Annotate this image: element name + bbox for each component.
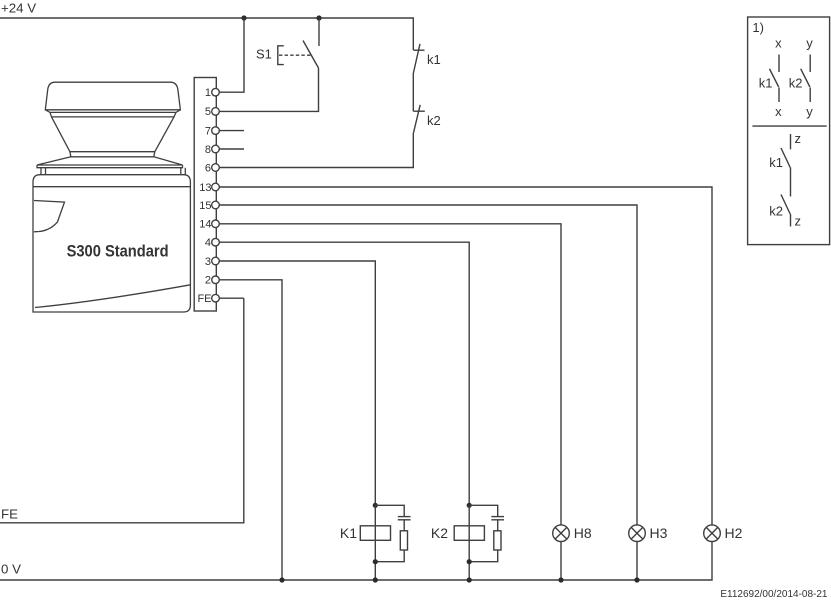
svg-text:H2: H2 <box>725 525 743 541</box>
wire pin15 to H3 <box>219 205 637 525</box>
wire stub pin7 <box>219 130 244 132</box>
+24V rail <box>0 1 413 51</box>
junction dot K2 on 0V <box>467 577 472 582</box>
svg-text:K1: K1 <box>340 525 357 541</box>
pin 7 <box>205 125 211 137</box>
legend contact k1 <box>759 55 779 103</box>
svg-text:x: x <box>775 104 782 119</box>
svg-text:7: 7 <box>205 125 211 137</box>
legend separator <box>752 125 826 127</box>
wire through K1 coil <box>374 505 376 580</box>
resistor R1 <box>400 531 407 550</box>
pin 6 <box>205 162 211 174</box>
wire pin4 to K2 <box>219 242 469 505</box>
svg-text:S300 Standard: S300 Standard <box>67 242 169 260</box>
svg-text:0 V: 0 V <box>1 562 21 577</box>
wire pin5 to S1 <box>219 68 319 111</box>
svg-text:FE: FE <box>197 293 211 305</box>
scanner bottom curve <box>35 285 190 308</box>
scanner optics window <box>34 201 65 232</box>
resistor R2 <box>494 531 501 550</box>
pin 1 <box>205 87 211 99</box>
scanner body <box>33 175 190 312</box>
svg-text:k2: k2 <box>789 76 803 91</box>
wire stub pin8 <box>219 148 244 150</box>
pin 3 <box>205 256 211 268</box>
svg-text:2: 2 <box>205 275 211 287</box>
svg-text:K2: K2 <box>431 525 448 541</box>
svg-text:k2: k2 <box>769 204 783 219</box>
wire pin2 to 0V rail <box>219 280 282 580</box>
scanner dish <box>37 157 183 165</box>
junction dot K2 top <box>467 503 472 508</box>
svg-text:4: 4 <box>205 237 211 249</box>
terminal block <box>194 78 216 312</box>
lamp H8 <box>553 525 592 583</box>
pin 4 <box>205 237 211 249</box>
svg-text:3: 3 <box>205 256 211 268</box>
legend series contact k2 <box>769 195 790 227</box>
pin 5 <box>205 106 211 118</box>
wire pin14 to H8 <box>219 224 561 525</box>
svg-text:8: 8 <box>205 144 211 156</box>
svg-text:5: 5 <box>205 106 211 118</box>
svg-text:E112692/00/2014-08-21: E112692/00/2014-08-21 <box>720 589 828 600</box>
pin 2 <box>205 275 211 287</box>
pin 14 <box>199 219 211 231</box>
pins <box>197 87 211 305</box>
scanner dish band <box>37 165 183 168</box>
legend box 1) <box>748 17 830 245</box>
svg-text:H3: H3 <box>650 525 668 541</box>
svg-text:y: y <box>806 104 813 119</box>
junction dot K1 top <box>373 503 378 508</box>
wire pin6 to k2 <box>219 133 413 168</box>
wire pinFE stub <box>219 297 244 299</box>
wire pin3 to K1 <box>219 261 375 505</box>
wire pin13 to H2 <box>219 187 712 525</box>
capacitor C2 <box>491 516 504 518</box>
svg-text:y: y <box>806 36 813 51</box>
svg-text:13: 13 <box>199 182 211 194</box>
capacitor C1 <box>398 516 411 518</box>
scanner cap band <box>45 110 180 113</box>
wire through K2 coil <box>468 505 470 580</box>
svg-text:k1: k1 <box>769 155 783 170</box>
svg-text:z: z <box>795 131 802 146</box>
lamp H3 <box>629 525 668 583</box>
relay coil K1 <box>360 526 390 541</box>
scanner base tabs <box>41 168 185 175</box>
FE rail <box>0 298 244 523</box>
legend series contact k1 <box>769 134 790 197</box>
legend contact k2 <box>789 55 810 103</box>
scanner funnel <box>52 117 175 152</box>
svg-text:k1: k1 <box>427 52 441 67</box>
svg-text:x: x <box>775 36 782 51</box>
contact k2 <box>413 105 440 133</box>
scanner S300 Standard <box>33 82 190 312</box>
svg-text:+24 V: +24 V <box>1 1 36 16</box>
pin 8 <box>205 144 211 156</box>
scanner body seam <box>33 186 190 188</box>
junction dot on +24V rail at pin1 drop <box>241 15 246 20</box>
switch S1 <box>256 18 319 68</box>
junction dot K2 bottom <box>467 559 472 564</box>
0V rail <box>0 542 712 581</box>
scanner neck <box>70 152 155 157</box>
pin 13 <box>199 182 211 194</box>
junction dot on +24V rail at S1 drop <box>316 15 321 20</box>
junction dot pin2 on 0V <box>279 577 284 582</box>
relay K1 assembly <box>340 503 411 583</box>
relay K2 assembly <box>431 503 504 583</box>
lamp H2 <box>704 525 743 542</box>
pin circles <box>212 88 220 302</box>
junction dot K1 bottom <box>373 559 378 564</box>
svg-text:H8: H8 <box>574 525 592 541</box>
junction dot K1 on 0V <box>373 577 378 582</box>
relay coil K2 <box>454 526 484 541</box>
wire pin1 to +24V rail <box>219 18 244 92</box>
svg-text:14: 14 <box>199 219 211 231</box>
svg-text:1: 1 <box>205 87 211 99</box>
wire K2 snubber branch <box>469 505 498 516</box>
contact k1 <box>413 44 440 111</box>
svg-text:k2: k2 <box>427 113 441 128</box>
svg-text:6: 6 <box>205 162 211 174</box>
pin 15 <box>199 200 211 212</box>
svg-text:z: z <box>795 214 802 229</box>
svg-text:k1: k1 <box>759 76 773 91</box>
svg-text:S1: S1 <box>256 47 272 62</box>
svg-text:1): 1) <box>752 20 764 35</box>
wire K1 snubber branch <box>375 505 404 516</box>
svg-text:15: 15 <box>199 200 211 212</box>
svg-text:FE: FE <box>1 507 18 522</box>
pin FE <box>197 293 211 305</box>
scanner top cap <box>45 82 180 110</box>
